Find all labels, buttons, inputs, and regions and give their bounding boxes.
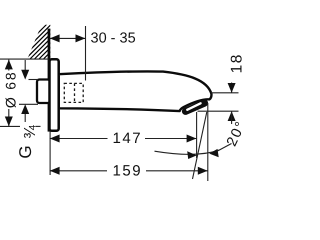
- svg-text:G: G: [16, 145, 35, 158]
- dimension 30-35 arrows: [50, 34, 60, 42]
- escutcheon flange: [50, 59, 59, 131]
- outlet slot (white): [187, 103, 200, 110]
- svg-text:¾: ¾: [22, 124, 39, 138]
- dimension 159 line: [50, 170, 107, 172]
- wall face extension line below: [49, 132, 51, 176]
- dimension 30-35 extension line: [85, 26, 87, 81]
- svg-text:20°: 20°: [224, 118, 247, 149]
- extension line top (escutcheon top, y=59): [0, 58, 49, 60]
- outlet dark band: [186, 103, 205, 111]
- dimension 30-35 line: [50, 37, 86, 39]
- svg-text:Ø 68: Ø 68: [3, 71, 19, 109]
- dimension 147 line: [50, 138, 108, 140]
- nipple extension lines: [29, 79, 39, 81]
- dimension 147 extension line: [196, 112, 198, 158]
- 20 degree reference line (outlet face direction): [193, 112, 207, 179]
- dimension 159 arrows: [50, 167, 60, 175]
- svg-text:147: 147: [113, 130, 143, 147]
- dimension G3/4 line + arrows: [24, 60, 26, 71]
- wall face line: [48, 29, 51, 132]
- svg-text:159: 159: [113, 163, 143, 180]
- dimension 147 arrows: [50, 135, 60, 143]
- hidden aerator detail (dashed): [64, 83, 83, 102]
- 20 degree arc arrowheads: [187, 151, 197, 159]
- dimension 159 extension line: [207, 103, 209, 181]
- dimension 18 extension lines: [211, 92, 239, 94]
- svg-text:30 - 35: 30 - 35: [91, 30, 136, 46]
- svg-text:18: 18: [228, 53, 245, 73]
- dimension O68 line + arrows: [8, 60, 10, 71]
- spout body: [59, 71, 212, 111]
- 20 degree arc: [155, 150, 220, 154]
- extension line bottom (escutcheon bottom, y=126.4): [0, 125, 20, 127]
- dimension 18 line + arrows: [231, 83, 233, 93]
- G3/4 nipple: [37, 80, 50, 104]
- 20 degree leader line: [218, 144, 232, 152]
